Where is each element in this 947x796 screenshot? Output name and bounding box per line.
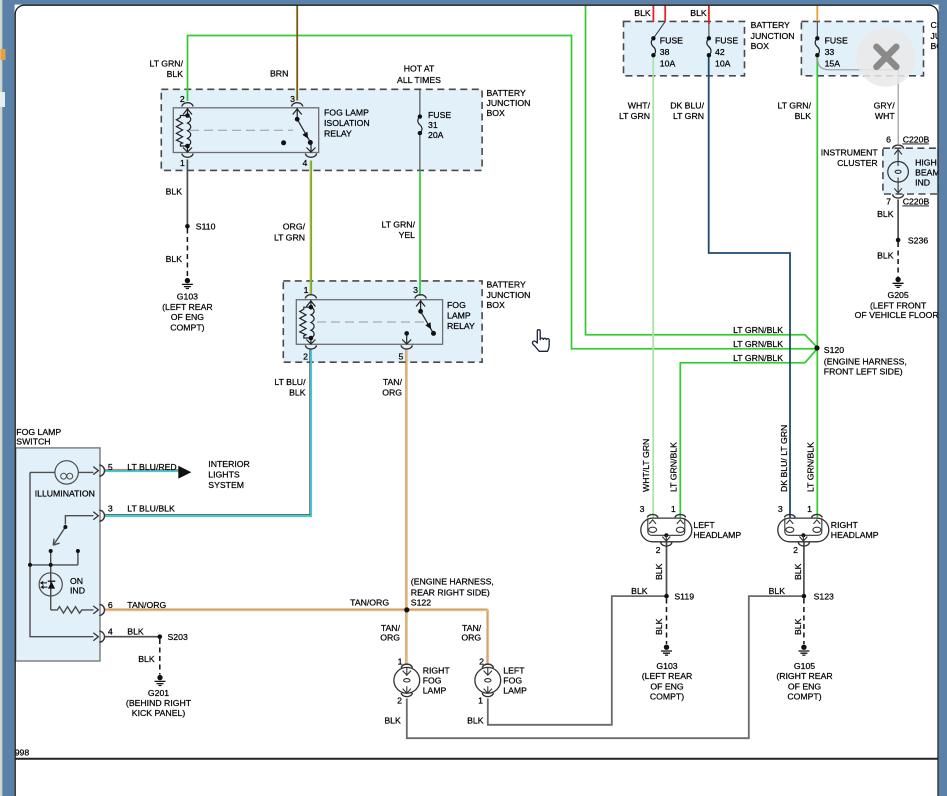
- svg-text:BOX: BOX: [487, 108, 506, 118]
- svg-text:BLK: BLK: [289, 388, 306, 398]
- svg-text:10A: 10A: [660, 58, 676, 68]
- svg-text:BATTERY: BATTERY: [487, 88, 526, 98]
- svg-text:BLK: BLK: [384, 716, 401, 726]
- svg-text:JUNCTION: JUNCTION: [487, 290, 531, 300]
- svg-text:BRN: BRN: [270, 68, 288, 78]
- svg-text:3: 3: [640, 504, 645, 514]
- svg-text:(ENGINE HARNESS,: (ENGINE HARNESS,: [411, 577, 494, 587]
- svg-text:3: 3: [778, 504, 783, 514]
- svg-text:LT BLU/BLK: LT BLU/BLK: [127, 504, 175, 514]
- svg-text:FUSE: FUSE: [715, 36, 738, 46]
- svg-text:TAN/: TAN/: [383, 377, 403, 387]
- svg-text:5: 5: [108, 462, 113, 472]
- svg-text:C220B: C220B: [903, 196, 930, 206]
- svg-text:COMPT): COMPT): [787, 692, 821, 702]
- svg-text:LT GRN/BLK: LT GRN/BLK: [733, 325, 783, 335]
- svg-text:LT BLU/: LT BLU/: [274, 377, 306, 387]
- svg-text:G201: G201: [148, 688, 169, 698]
- svg-text:10A: 10A: [715, 58, 731, 68]
- svg-text:31: 31: [428, 120, 438, 130]
- svg-text:BLK: BLK: [654, 618, 664, 635]
- svg-text:3: 3: [290, 94, 295, 104]
- svg-text:2: 2: [180, 94, 185, 104]
- svg-text:ORG: ORG: [380, 633, 400, 643]
- svg-text:BLK: BLK: [467, 716, 484, 726]
- svg-text:FUSE: FUSE: [825, 36, 848, 46]
- svg-text:HEADLAMP: HEADLAMP: [693, 530, 741, 540]
- svg-text:TAN/: TAN/: [462, 623, 482, 633]
- svg-text:LT GRN/: LT GRN/: [778, 100, 812, 110]
- svg-text:33: 33: [825, 47, 835, 57]
- svg-text:(RIGHT REAR: (RIGHT REAR: [776, 671, 832, 681]
- svg-text:RIGHT: RIGHT: [423, 665, 451, 675]
- svg-text:4: 4: [108, 627, 113, 637]
- svg-text:BLK: BLK: [793, 618, 803, 635]
- svg-text:C220B: C220B: [903, 134, 930, 144]
- svg-text:JUNCTION: JUNCTION: [751, 31, 795, 41]
- svg-text:OF ENG: OF ENG: [650, 681, 684, 691]
- svg-text:3: 3: [413, 285, 418, 295]
- svg-text:TAN/ORG: TAN/ORG: [127, 600, 166, 610]
- svg-text:G103: G103: [177, 292, 198, 302]
- svg-text:LT GRN/BLK: LT GRN/BLK: [669, 442, 679, 492]
- svg-text:ON: ON: [70, 576, 83, 586]
- svg-text:LEFT: LEFT: [503, 665, 525, 675]
- svg-text:BATTERY: BATTERY: [487, 280, 526, 290]
- svg-text:BLK: BLK: [877, 251, 894, 261]
- svg-text:1: 1: [180, 158, 185, 168]
- svg-text:SWITCH: SWITCH: [16, 436, 50, 446]
- svg-text:42: 42: [715, 47, 725, 57]
- svg-text:CLUSTER: CLUSTER: [837, 158, 878, 168]
- svg-text:BOX: BOX: [751, 41, 770, 51]
- svg-text:BATTERY: BATTERY: [751, 20, 790, 30]
- svg-text:RELAY: RELAY: [324, 129, 352, 139]
- svg-text:S122: S122: [411, 598, 431, 608]
- svg-text:HEADLAMP: HEADLAMP: [831, 530, 879, 540]
- svg-text:1: 1: [304, 285, 309, 295]
- svg-text:ILLUMINATION: ILLUMINATION: [35, 489, 95, 499]
- svg-text:LT GRN/BLK: LT GRN/BLK: [733, 339, 783, 349]
- svg-text:2: 2: [303, 351, 308, 361]
- svg-text:OF VEHICLE FLOOR): OF VEHICLE FLOOR): [855, 310, 942, 320]
- svg-text:1: 1: [671, 504, 676, 514]
- svg-text:BLK: BLK: [795, 111, 812, 121]
- svg-text:4: 4: [302, 158, 307, 168]
- svg-text:1: 1: [807, 504, 812, 514]
- svg-text:2: 2: [397, 696, 402, 706]
- svg-text:(ENGINE HARNESS,: (ENGINE HARNESS,: [824, 356, 907, 366]
- svg-text:998: 998: [15, 748, 30, 758]
- svg-text:LT BLU/RED: LT BLU/RED: [127, 462, 176, 472]
- svg-text:INTERIOR: INTERIOR: [208, 459, 250, 469]
- svg-text:RELAY: RELAY: [447, 321, 475, 331]
- svg-text:(LEFT REAR: (LEFT REAR: [642, 671, 693, 681]
- svg-text:OF ENG: OF ENG: [171, 312, 205, 322]
- svg-text:LT GRN/BLK: LT GRN/BLK: [733, 353, 783, 363]
- svg-text:BLK: BLK: [769, 586, 786, 596]
- svg-text:FUSE: FUSE: [660, 36, 683, 46]
- svg-text:ORG: ORG: [382, 388, 402, 398]
- svg-text:COMPT): COMPT): [170, 322, 204, 332]
- svg-text:38: 38: [660, 47, 670, 57]
- svg-text:JUNCTION: JUNCTION: [487, 98, 531, 108]
- svg-text:BLK: BLK: [690, 8, 707, 18]
- svg-text:COMPT): COMPT): [650, 692, 684, 702]
- svg-text:20A: 20A: [428, 130, 444, 140]
- svg-text:HOT AT: HOT AT: [404, 64, 435, 74]
- svg-text:SYSTEM: SYSTEM: [208, 480, 244, 490]
- svg-text:WHT/LT GRN: WHT/LT GRN: [641, 439, 651, 492]
- svg-text:3: 3: [108, 504, 113, 514]
- svg-text:BLK: BLK: [634, 8, 651, 18]
- svg-text:FOG: FOG: [503, 675, 522, 685]
- svg-text:BLK: BLK: [167, 69, 184, 79]
- svg-text:KICK PANEL): KICK PANEL): [132, 708, 186, 718]
- svg-text:LT GRN/: LT GRN/: [382, 219, 416, 229]
- svg-text:FRONT LEFT SIDE): FRONT LEFT SIDE): [824, 367, 903, 377]
- svg-text:LT GRN: LT GRN: [619, 111, 650, 121]
- svg-text:LAMP: LAMP: [503, 685, 527, 695]
- svg-text:(LEFT FRONT: (LEFT FRONT: [870, 300, 927, 310]
- svg-text:LT GRN: LT GRN: [274, 232, 305, 242]
- svg-text:BLK: BLK: [127, 626, 144, 636]
- svg-text:S120: S120: [824, 345, 844, 355]
- svg-text:2: 2: [793, 545, 798, 555]
- svg-text:G103: G103: [656, 661, 677, 671]
- svg-text:2: 2: [479, 657, 484, 667]
- svg-text:DK BLU/: DK BLU/: [670, 100, 704, 110]
- svg-text:REAR RIGHT SIDE): REAR RIGHT SIDE): [411, 588, 490, 598]
- svg-text:LT GRN/: LT GRN/: [150, 59, 184, 69]
- svg-text:2: 2: [656, 545, 661, 555]
- svg-text:TAN/ORG: TAN/ORG: [350, 598, 389, 608]
- svg-text:LAMP: LAMP: [423, 685, 447, 695]
- svg-text:1: 1: [398, 657, 403, 667]
- svg-text:FUSE: FUSE: [428, 110, 451, 120]
- svg-text:G105: G105: [794, 661, 815, 671]
- svg-text:S119: S119: [674, 591, 694, 601]
- svg-text:TAN/: TAN/: [381, 623, 401, 633]
- svg-text:S236: S236: [908, 235, 928, 245]
- svg-text:FOG: FOG: [423, 675, 442, 685]
- svg-text:1: 1: [478, 696, 483, 706]
- svg-text:ORG/: ORG/: [283, 222, 306, 232]
- svg-text:15A: 15A: [825, 58, 841, 68]
- svg-text:IND: IND: [915, 177, 930, 187]
- svg-text:(LEFT REAR: (LEFT REAR: [162, 302, 213, 312]
- svg-text:BLK: BLK: [793, 563, 803, 580]
- svg-text:LIGHTS: LIGHTS: [208, 470, 240, 480]
- svg-text:G205: G205: [887, 290, 908, 300]
- svg-text:IND: IND: [70, 586, 85, 596]
- svg-text:LT GRN: LT GRN: [673, 111, 704, 121]
- svg-text:BLK: BLK: [877, 209, 894, 219]
- svg-text:BLK: BLK: [166, 254, 183, 264]
- svg-text:BEAM: BEAM: [915, 167, 940, 177]
- svg-text:ALL TIMES: ALL TIMES: [397, 75, 441, 85]
- svg-text:LT GRN/BLK: LT GRN/BLK: [805, 442, 815, 492]
- svg-text:6: 6: [108, 600, 113, 610]
- svg-text:S123: S123: [814, 591, 834, 601]
- svg-text:GRY/: GRY/: [874, 100, 896, 110]
- svg-text:(BEHIND RIGHT: (BEHIND RIGHT: [126, 698, 192, 708]
- svg-text:DK BLU/ LT GRN: DK BLU/ LT GRN: [779, 425, 789, 492]
- svg-text:FOG: FOG: [447, 300, 466, 310]
- svg-text:WHT: WHT: [875, 111, 895, 121]
- svg-text:S110: S110: [196, 222, 216, 232]
- svg-text:BLK: BLK: [166, 187, 183, 197]
- svg-text:HIGH: HIGH: [915, 158, 937, 168]
- svg-text:YEL: YEL: [399, 230, 416, 240]
- svg-text:BOX: BOX: [487, 300, 506, 310]
- svg-text:6: 6: [886, 134, 891, 144]
- svg-text:BLK: BLK: [654, 563, 664, 580]
- svg-text:LAMP: LAMP: [447, 311, 471, 321]
- svg-text:S203: S203: [168, 632, 188, 642]
- svg-text:WHT/: WHT/: [628, 100, 651, 110]
- svg-text:ORG: ORG: [461, 633, 481, 643]
- svg-text:FOG LAMP: FOG LAMP: [324, 108, 369, 118]
- svg-text:LEFT: LEFT: [693, 520, 715, 530]
- svg-text:ISOLATION: ISOLATION: [324, 118, 370, 128]
- svg-text:7: 7: [886, 196, 891, 206]
- svg-text:BLK: BLK: [138, 654, 155, 664]
- svg-text:INSTRUMENT: INSTRUMENT: [821, 148, 879, 158]
- svg-text:OF ENG: OF ENG: [788, 681, 822, 691]
- svg-text:BLK: BLK: [631, 586, 648, 596]
- svg-text:RIGHT: RIGHT: [831, 520, 859, 530]
- svg-text:5: 5: [398, 351, 403, 361]
